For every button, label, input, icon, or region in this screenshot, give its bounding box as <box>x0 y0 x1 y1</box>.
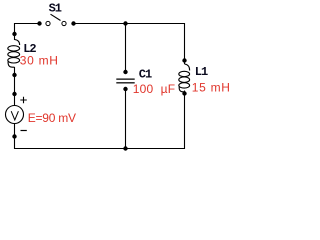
node C1 bottom pin <box>123 87 127 91</box>
switch S1 <box>37 14 75 25</box>
inductor L1 <box>179 58 190 95</box>
V letter <box>11 111 18 120</box>
node switch right pin <box>71 21 75 25</box>
L2 coil <box>15 40 20 46</box>
svg-text:100 µF: 100 µF <box>133 82 176 96</box>
svg-text:30 mH: 30 mH <box>20 54 59 68</box>
C1 top plate <box>116 79 134 80</box>
node L2 bottom pin <box>12 73 16 77</box>
wire left branch mid (L2 to source) <box>14 67 16 106</box>
wire right branch lower <box>184 91 186 150</box>
wire right branch upper <box>184 23 186 64</box>
node switch left pin <box>37 21 41 25</box>
wire left branch upper <box>14 23 16 40</box>
node L1 bottom pin <box>182 91 186 95</box>
node C1 top pin <box>123 70 127 74</box>
source circle <box>6 106 24 124</box>
switch lever <box>51 14 61 20</box>
node source minus pin <box>12 134 16 138</box>
svg-text:15 mH: 15 mH <box>192 81 231 95</box>
capacitor C1 <box>116 70 134 91</box>
source V1 <box>6 92 27 139</box>
wire top left segment <box>14 23 40 25</box>
node bottom junction <box>123 146 127 150</box>
wire top right segment <box>74 23 186 25</box>
svg-text:C1: C1 <box>139 68 152 82</box>
L1 coil <box>185 64 190 71</box>
inductor L2 <box>8 32 20 77</box>
svg-text:L1: L1 <box>195 65 208 79</box>
C1 bottom plate <box>116 82 134 83</box>
wire middle branch upper <box>125 23 127 72</box>
switch right terminal <box>62 21 66 25</box>
wire bottom <box>14 148 185 150</box>
wire left branch lower (source to bottom) <box>14 124 16 150</box>
node source plus pin <box>12 92 16 96</box>
node top junction <box>123 21 127 25</box>
minus sign <box>21 130 27 132</box>
plus sign <box>20 97 27 103</box>
node L1 top pin <box>182 58 186 62</box>
switch left terminal <box>46 21 50 25</box>
svg-text:S1: S1 <box>49 2 62 16</box>
wire middle branch lower <box>125 89 127 149</box>
node L2 top pin <box>12 32 16 36</box>
svg-text:E=90 mV: E=90 mV <box>28 111 76 125</box>
